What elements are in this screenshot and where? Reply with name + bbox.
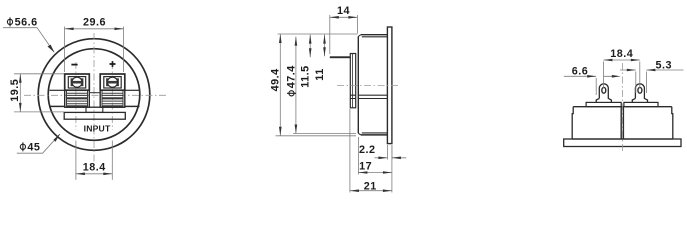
dim 18.4 line <box>76 173 112 175</box>
spring section right inner <box>102 90 123 107</box>
dim 11.5 line <box>309 35 311 58</box>
dim 18.4 line <box>603 59 639 61</box>
arrows 18.4 <box>603 59 612 62</box>
dim 21 line <box>350 190 392 192</box>
bottom plate <box>64 112 125 119</box>
leader phi56.6 <box>3 28 54 52</box>
dim 6.6 lines <box>564 75 613 77</box>
tab right hole <box>638 87 642 93</box>
gap line between blocks <box>89 92 100 94</box>
dim 5.3 lines <box>620 69 684 71</box>
svg-text:21: 21 <box>364 180 377 192</box>
top ext line <box>278 33 358 35</box>
base plate <box>564 139 681 147</box>
dim 14 ext lines <box>329 15 331 54</box>
leader phi45 <box>17 134 60 153</box>
dim 19.5 line <box>19 74 21 112</box>
mid band line 1 <box>358 94 387 96</box>
terminal block right button dark <box>106 78 119 86</box>
flange disc <box>387 27 392 144</box>
svg-text:14: 14 <box>337 5 350 17</box>
barrel top edge <box>361 34 388 36</box>
arrows 2.2 <box>378 157 387 160</box>
arrows 11 <box>323 35 326 44</box>
dim 6.6 ext lines <box>595 78 597 95</box>
terminal block left button circle <box>72 77 82 87</box>
housing slab <box>350 54 355 108</box>
svg-text:19.5: 19.5 <box>9 79 21 102</box>
dim 29.6 ext lines <box>64 27 66 73</box>
svg-text:INPUT: INPUT <box>84 124 111 134</box>
svg-text:11.5: 11.5 <box>300 65 312 87</box>
shelf line left lower <box>49 105 65 107</box>
dim text phi45 <box>20 142 25 151</box>
arrows 14 <box>330 16 339 19</box>
terminal block right cap inner <box>104 77 121 88</box>
dim 19.5 ext lines <box>14 73 64 75</box>
arrows 6.6 <box>587 75 596 78</box>
spring stripes left <box>67 93 88 104</box>
center step box <box>86 107 103 112</box>
centerline horizontal <box>24 94 166 96</box>
outer circle phi56.6 <box>38 39 150 151</box>
shelf line right upper <box>125 89 139 91</box>
center dashdot <box>621 63 623 152</box>
arrows 5.3 <box>627 69 636 72</box>
dim 17 ext line left <box>357 137 359 175</box>
svg-text:45: 45 <box>27 141 40 153</box>
svg-text:56.6: 56.6 <box>15 17 38 29</box>
svg-text:49.4: 49.4 <box>270 68 282 91</box>
dim 21 ext line left <box>349 109 351 193</box>
tab left <box>596 84 611 103</box>
centerline vertical <box>93 33 95 162</box>
svg-text:6.6: 6.6 <box>572 65 589 77</box>
tab left hole <box>602 87 606 93</box>
arrows 47.4 <box>295 37 298 46</box>
dim 2.2 ext lines <box>386 145 388 160</box>
terminal plate left <box>586 102 621 106</box>
svg-text:5.3: 5.3 <box>656 60 673 72</box>
svg-text:18.4: 18.4 <box>83 162 106 174</box>
spring stripes right <box>102 93 123 104</box>
barrel bottom edge <box>361 134 388 136</box>
svg-text:11: 11 <box>314 68 326 80</box>
svg-text:18.4: 18.4 <box>610 48 633 60</box>
spring section left inner <box>67 90 88 107</box>
dim 17 line <box>358 172 392 174</box>
dim 2.2 lines <box>375 157 407 159</box>
barrel front face <box>357 36 359 133</box>
dim 29.6 line <box>65 28 124 30</box>
barrel bottom inner line <box>362 132 388 134</box>
arrows 19.5 <box>19 74 22 83</box>
terminal plate right <box>624 102 658 106</box>
spring section left outer <box>65 90 90 107</box>
spring section right outer <box>100 90 125 107</box>
svg-text:2.2: 2.2 <box>359 144 376 156</box>
dim text 47.4 <box>285 65 297 96</box>
terminal block left button dark <box>71 78 84 86</box>
barrel top inner line <box>362 36 388 38</box>
dim 18.4 ext lines <box>602 62 604 89</box>
arrows 17 <box>358 171 367 174</box>
svg-text:29.6: 29.6 <box>83 17 106 29</box>
svg-text:17: 17 <box>359 161 372 173</box>
svg-text:47.4: 47.4 <box>285 65 297 88</box>
body divider <box>621 107 623 139</box>
blocks bottom line <box>65 106 125 108</box>
barrel front corner top <box>358 35 361 37</box>
dim 18.4 ext lines <box>75 141 77 180</box>
dim 5.3 ext lines <box>636 72 647 94</box>
arrows 49.4 <box>279 34 282 43</box>
tab right <box>632 84 647 103</box>
dim text phi56.6 <box>7 17 12 26</box>
body block <box>572 107 673 139</box>
terminal block right cap outer <box>100 74 125 90</box>
mid band line 2 <box>358 98 387 100</box>
terminal block left slot <box>72 81 82 84</box>
barrel front corner bottom <box>358 133 361 135</box>
centerline horizontal <box>337 85 400 87</box>
slab band <box>350 95 355 98</box>
shelf line left upper <box>50 89 65 91</box>
shelf line right lower <box>125 105 140 107</box>
arrow phi45 leader <box>54 134 61 142</box>
terminal block right button circle <box>108 77 118 87</box>
plus sign <box>110 61 116 67</box>
lug <box>330 56 351 58</box>
terminal centerline left <box>75 62 77 130</box>
terminal centerline right <box>111 62 113 130</box>
arrow phi56.6 leader <box>48 45 55 53</box>
dim 47.4 line <box>295 37 297 134</box>
arrows 21 <box>350 189 359 192</box>
minus sign <box>71 64 77 66</box>
bottom ext line 49.4 <box>276 135 357 137</box>
housing slab inner line <box>351 54 353 108</box>
inner circle phi45 <box>48 49 140 141</box>
terminal block right slot <box>107 81 117 84</box>
dim 11 line <box>324 35 326 57</box>
terminal block left cap inner <box>68 77 85 88</box>
arrows 18.4 <box>76 173 85 176</box>
terminal block left cap outer <box>65 74 90 90</box>
dim 14 line <box>330 16 358 18</box>
bottom ext line 47.4 <box>293 133 356 135</box>
dim 21 ext line right <box>391 145 393 193</box>
dim 49.4 line <box>279 34 281 136</box>
arrows 11.5 <box>309 35 312 44</box>
arrows 29.6 <box>65 28 74 31</box>
